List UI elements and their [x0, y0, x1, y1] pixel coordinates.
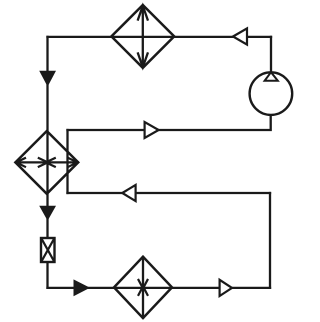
heat exchanger HX2 (left diamond) — [15, 131, 78, 194]
flow arrow open T3 (left, on y=192.7 run) — [122, 185, 135, 201]
flow arrow solid A2 (down, on left bus below HX2) — [39, 206, 56, 221]
heat exchanger HX1 (top diamond) — [111, 5, 174, 68]
pump P1 (circle with inlet triangle) — [250, 72, 293, 115]
expansion valve V1 (crossed box on left bus) — [41, 238, 55, 262]
wire left vertical bus x=47.5 — [46, 37, 48, 288]
flow arrow open T4 (right, on bottom return) — [220, 280, 232, 296]
wire pump outlet to elbow and left run (y=130) — [68, 114, 271, 130]
flow arrow open T1 (left, on top header) — [233, 28, 247, 44]
wire bottom return (y=288.2) — [48, 287, 271, 289]
flow arrow solid A1 (down, on left bus above HX2) — [39, 71, 56, 87]
wire right lower drop x=270 — [269, 193, 271, 288]
flow arrow solid A3 (right, on bottom return wire) — [74, 279, 91, 296]
wire inner vertical riser x=67.5 — [66, 130, 68, 193]
wire middle lower run (y=192.7) — [68, 192, 271, 194]
heat exchanger HX3 (bottom diamond) — [114, 257, 172, 318]
flow arrow open T2 (right, on y=130 run) — [145, 122, 159, 138]
wire right drop to pump inlet — [270, 37, 272, 73]
wire top header (y=36.6) — [48, 36, 272, 38]
